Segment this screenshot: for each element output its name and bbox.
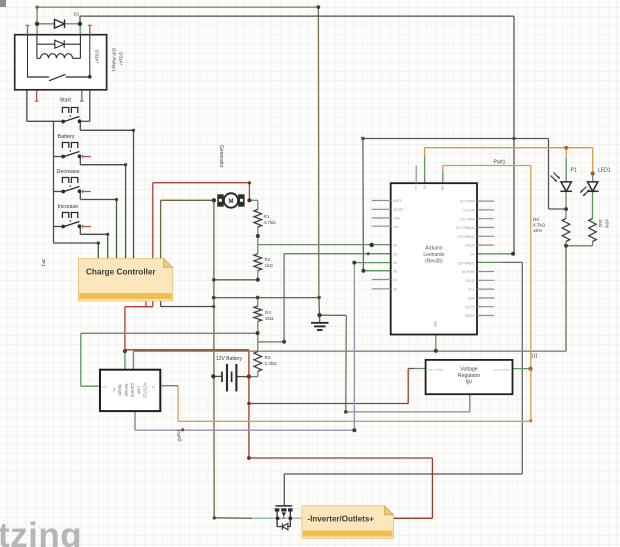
svg-text:3V3: 3V3 [414,186,418,191]
switch Battery [58,134,82,158]
wire: relay coil pin green left (into D1 row) [36,24,38,35]
wire: CC pin5 drop x=133.5 [133,130,135,258]
wire: motor+ to R1 green [249,200,257,209]
note: -Inverter/Outlets+ [302,506,394,539]
LED LED1 [580,182,598,196]
resistor R4 1k [254,306,274,321]
svg-text:Increase: Increase [58,204,79,210]
wire: Arduino GND bottom pin green [435,335,437,351]
wire: relay coil pin green right [79,24,81,35]
wire: bus tap to Increase left [54,226,64,228]
svg-text:VCC: VCC [102,386,107,389]
wire: red riser x=408.2 to VR input pin [408,369,414,404]
svg-text:AREF: AREF [393,199,402,203]
wire: R4 bottom to R3 top green [257,321,259,351]
svg-text:D31A*: D31A* [118,52,123,65]
svg-text:Leonardo: Leonardo [423,252,444,258]
wire: Battery row horizontal y=164.7 [80,164,125,166]
wire: red horizontal y=458 [249,457,433,459]
svg-text:D0/RX: D0/RX [465,314,475,318]
wire: ACS top pin1 green [124,351,126,370]
wire: P1 cathode green [565,192,567,209]
wire: red horizontal y=403.5 to VR input [249,403,408,405]
svg-text:D10 PWM(A): D10 PWM(A) [456,226,475,230]
wire: gen+ red drop to motor [248,183,250,201]
wire: bus tap to Decrease left [54,191,64,193]
svg-text:4.7kΩ: 4.7kΩ [533,223,546,228]
wire: gen- long olive vertical x=213.8 [213,200,215,518]
wire: relay NO pin down to Start right [89,91,91,122]
svg-text:GND: GND [433,321,437,327]
svg-text:P1: P1 [571,168,577,174]
wire: brown net top horizontal y=7 [37,6,318,8]
svg-text:Sensor: Sensor [124,383,129,397]
svg-text:(Rev3b): (Rev3b) [425,259,443,265]
svg-text:Start: Start [60,98,72,104]
wire: LED1 cathode to R5 [592,192,594,219]
label: U1 [532,354,539,360]
wire: GND row horizontal y=297.5 (gen- to ground corner) [214,297,319,299]
wire: CC gen+ red vertical x=152.8 [152,183,154,259]
wire: D1 net vertical x=548.5 down [548,139,550,210]
svg-text:M: M [229,199,234,205]
svg-text:input voltage: input voltage [428,367,444,371]
wire: D1 net top horizontal y=16 [80,15,514,17]
wire: bus bottom horizontal y=243 [54,242,99,244]
wire: ACS rail vertical x=80.8 [80,333,82,386]
wire: Increase right drop [79,227,81,235]
pin: Start red stub [0,0,1,1]
resistor R1 4.7k [254,209,276,227]
IC Part1 Arduino Leonardo (Rev3b) [391,183,477,334]
IC Part2 ACS712 current sensor [100,370,160,411]
svg-text:D5 PWM: D5 PWM [462,270,475,274]
wire: Decrease row horizontal y=199.5 [80,199,116,201]
svg-text:GND: GND [466,381,469,387]
label: DIP-Relay1 D31A* [112,48,124,72]
wire: R3 bottom green [249,371,258,376]
wire: ground drop (319,297)-(319.5,315) [318,297,321,315]
svg-text:Low: Low [136,386,141,395]
wire: relay common pin down to switch row [26,90,28,122]
svg-text:A1: A1 [393,252,397,256]
wire: CC gen- olive vertical x=160.6 [160,200,162,258]
svg-text:-Inverter/Outlets+: -Inverter/Outlets+ [308,515,375,524]
wire: red to inverter note y=518.3 [393,517,432,519]
svg-text:Decrease: Decrease [57,169,80,175]
pin: Arduino bottom GND [433,321,437,327]
wire: MOSFET source rail pale to inverter note [252,517,302,519]
svg-text:Generator: Generator [218,145,224,168]
wire: brown net top-left vertical (37,24)-(37,7) [36,7,38,24]
wire: A1 vertical x=284 [283,254,285,342]
svg-text:D11 PWM: D11 PWM [460,217,475,221]
wire: R4 top green [257,297,259,306]
svg-text:Arduino: Arduino [425,246,442,252]
wire: bus tap to Battery left [54,156,64,158]
svg-text:SCL: SCL [468,288,474,292]
pin: CC unconnected red stub [144,301,148,307]
wire: R2 bottom to gen- olive y=279.8 [214,279,258,281]
wire: D7 pin wire green [477,253,513,255]
label: LED1 [598,168,611,174]
wire: D6 pin wire [477,261,522,263]
wire: R5 bottom stub [592,242,594,246]
svg-text:D13 PWM: D13 PWM [460,200,475,204]
svg-text:A5: A5 [393,287,397,291]
motor/generator M1 "Generator" [217,193,244,207]
svg-text:12V Battery: 12V Battery [216,356,243,362]
svg-text:SDA: SDA [468,297,475,301]
wire: left bus x=53.5 Start->Battery [53,121,55,156]
wire: A1 horizontal y=253.7 [284,253,391,255]
wire: tan riser x=178.1 [177,386,179,422]
pin: Decrease red stub [82,190,91,194]
svg-text:D1/TX: D1/TX [465,305,475,309]
IC U1 Voltage Regulator 5V [426,360,513,394]
svg-text:U1: U1 [532,354,539,360]
wire: gate stem to MOSFET [283,474,285,505]
wire: P1 anode [565,148,567,182]
wire: D1 net vertical x=514 down to D7 [513,16,515,254]
wire: CC gnd bottom pin to olive vertical [161,301,214,307]
wire: R2 bottom green [257,271,259,280]
wire: D1 net horizontal y=138.5 [363,138,549,140]
svg-text:A4: A4 [393,278,397,282]
pin: Increase red stub [82,225,91,229]
svg-text:D31A*: D31A* [95,50,100,63]
svg-text:R3: R3 [265,355,271,360]
wire: ACS bottom pin green [134,411,136,430]
relay DIP-Relay1 D31A* [15,35,107,90]
wire: brown net long vertical x=318.5 down to ground row [317,7,320,297]
corner mark top-left [0,0,6,7]
svg-text:1kΩ: 1kΩ [598,219,603,228]
wire: A3 pin wire green [363,270,390,272]
battery 12V Battery [216,356,243,391]
wire: batt+ red drop x=248.9 [248,350,250,404]
wire: CC pin1 drop x=98.3 [97,243,99,259]
svg-text:LED1: LED1 [598,168,611,174]
svg-text:2.2kΩ: 2.2kΩ [265,361,278,366]
wire: Increase row horizontal y=234.3 [80,233,107,235]
wire: GND rail y=351.2 (ACS to R6) [133,350,566,352]
wire: gen- olive horizontal y=200.3 [161,199,214,201]
wire: ACS left pin horizontal [81,385,100,387]
wire: VIN drop to Arduino VIN pin [442,166,444,184]
svg-text:GND: GND [393,217,401,221]
label: JP1 [41,259,46,267]
switch Start [60,98,82,124]
wire: LED1 anode [592,148,594,182]
wire: VR output pin green [513,368,531,370]
svg-text:D12 (A): D12 (A) [464,209,475,213]
svg-text:R1: R1 [264,214,270,219]
svg-text:D6 PWM(A): D6 PWM(A) [458,261,475,265]
svg-text:4.7kΩ: 4.7kΩ [264,220,277,225]
label: D1 [74,12,80,17]
wire: VR GND horizontal y=412 [346,411,470,413]
svg-text:D9 PWM(A): D9 PWM(A) [458,235,475,239]
wire: D1 cathode green [65,23,81,25]
svg-text:R2: R2 [265,257,271,262]
wire: D1 net horizontal to P1 cathode node y=209 [549,208,567,210]
svg-text:A2: A2 [393,261,397,265]
pin: Battery red stub [82,155,91,159]
wire: ground branch right y=315 [320,314,347,316]
label: Part1 [494,160,506,166]
wire: Start right to relay riser [80,120,90,122]
wire: R6 top green [565,209,567,219]
resistor R3 2.2k [254,352,277,372]
wire: A1 branch y=341.9 [258,341,284,343]
svg-text:D7: D7 [470,253,474,257]
wire: R1-R2 link green [257,227,259,254]
wire: orange vertical x=530.8 [530,166,532,422]
wire: A0 horizontal y=244.6 [258,244,391,246]
resistor R2 1k [254,254,273,271]
wire: VIN orange horizontal y=165.5 [443,165,531,167]
svg-text:DIP-Relay1: DIP-Relay1 [112,48,117,72]
wire: 5V drop to Arduino 5V pin [424,148,426,184]
wire: D6 gate vertical x=522.3 [521,262,523,474]
wire: Start right drop [79,121,81,130]
svg-text:R6: R6 [533,217,539,222]
pins: Arduino top (3V3,5V,VIN) [414,166,445,191]
wire: left bus Decrease->Increase [53,192,55,227]
wire: ground branch vertical x=346 down to VR gnd line [345,315,348,412]
pin: relay top stubs (red) [26,25,92,34]
svg-text:VIN: VIN [440,186,444,191]
svg-text:Battery: Battery [58,134,75,140]
svg-text:Board: Board [118,384,123,396]
wire: ACS top pin2 green [132,351,134,370]
transistor Q1 MOSFET [275,506,293,530]
wire: red vertical x=432.4 [431,458,433,518]
wire: ACS right pin green [160,385,178,387]
label: Part2 [175,429,183,442]
switch Increase [58,204,82,228]
wire: R6 bottom stub [565,242,567,246]
svg-text:1kΩ: 1kΩ [265,316,274,321]
wire: D1 anode green [37,23,54,25]
svg-text:A3: A3 [393,269,397,273]
svg-text:output voltage: output voltage [493,367,510,371]
wire: MOSFET source rail left (olive) y=518 [214,517,252,520]
svg-text:+/-: +/- [112,387,117,393]
wire: relay-to-Start horizontal y=121.3 [27,120,63,122]
wire: resistor bottoms join y=245.8 [566,245,593,247]
svg-text:D8 (A): D8 (A) [465,244,474,248]
wire: battery+ lead [237,376,249,378]
wire: Battery right drop [79,157,81,165]
wire: VR GND pin vertical x=470 [469,394,471,412]
resistor R5 1k [589,219,610,242]
svg-text:D1: D1 [74,12,80,17]
wire: A2 pin wire green [354,262,390,264]
wire: Start row horizontal y=130.3 [80,129,133,131]
svg-text:1kΩ: 1kΩ [265,263,274,268]
wire: CC pin4 drop x=125.6 [125,165,127,259]
ground [311,315,329,330]
photodiode P1 [551,173,573,192]
svg-text:Voltage: Voltage [460,367,477,373]
svg-text:Part1: Part1 [494,160,506,166]
svg-text:5V: 5V [422,186,426,189]
wire: CC pin2 drop x=107.7 [107,234,109,258]
wire: ACS rail green y=333.3 [81,332,258,334]
switch Decrease [57,169,82,193]
wire: A2 vertical x=354.4 [353,263,355,431]
svg-text:Charge Controller: Charge Controller [86,268,156,277]
svg-text:D4 (A): D4 (A) [465,279,474,283]
wire: tan horizontal y=421.3 [178,420,531,422]
svg-text:±5%: ±5% [605,219,610,228]
svg-text:R4: R4 [265,310,271,315]
wire: D1 net riser (80,24)-(80,16) [79,16,81,24]
svg-text:Vcc: Vcc [393,225,399,229]
svg-text:ACS712: ACS712 [143,382,148,398]
svg-text:±5%: ±5% [533,228,542,233]
resistor R6 4.7k [533,217,570,242]
pins: Arduino right (D13..D0) [456,200,494,318]
svg-text:RESET: RESET [393,208,404,212]
svg-text:A0: A0 [393,244,397,248]
svg-text:JP1: JP1 [41,259,46,267]
svg-text:Regulator: Regulator [458,373,481,379]
watermark "tzing" (fritzing, cut off) [0,516,82,547]
svg-text:Current: Current [130,383,135,398]
pin: relay bottom stubs (red) [35,91,84,102]
wire: left bus Battery->Decrease [53,157,55,192]
wire: D1 net vertical x=363 down to A3 [362,139,365,271]
wire: CC battery+ red bottom pin [125,301,153,351]
label: Generator [218,145,224,168]
pins: Arduino left (AREF..A5) [372,199,404,291]
wire: gen+ red horizontal y=182.7 [153,182,250,184]
wire: battery- lead [213,375,221,377]
wire: CC batt+ red horizontal y=349.8 [125,349,249,351]
wire: VR input pin green [414,368,426,370]
label: P1 [571,168,577,174]
wire: rail riser x=566 to resistor bottoms [565,246,567,351]
wire: red vertical x=248.9 down to inverter row [248,404,250,459]
wire: 5V orange horizontal y=147.7 [425,147,593,149]
note: Charge Controller [78,259,172,302]
wire: A2 horizontal y=430.2 [135,429,354,431]
diode D1 [55,19,65,28]
wire: Decrease right drop [79,192,81,200]
wire: CC pin3 drop x=116.5 [116,200,118,259]
wire: gate horizontal y=474 [284,473,522,475]
svg-text:tzing: tzing [0,516,82,547]
wire: left bus bottom [53,227,55,244]
